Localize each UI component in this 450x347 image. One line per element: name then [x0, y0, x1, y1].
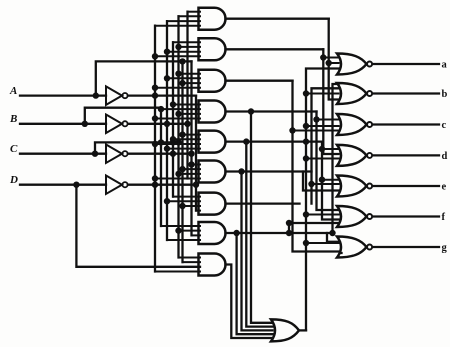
AND gate G3	[199, 70, 226, 92]
wire v323 (G2)	[323, 49, 338, 154]
wire G4 input 3	[179, 113, 201, 115]
junction G3.2	[164, 75, 170, 81]
node C-v178	[175, 139, 181, 145]
junction G6.2	[179, 166, 185, 172]
node Dbar-v155	[152, 182, 158, 188]
junction G4.1	[170, 101, 176, 107]
junction G7.2	[164, 198, 170, 204]
wire c.1 stub	[317, 119, 339, 121]
wire G1 input 2	[179, 15, 201, 17]
wire G2 output	[226, 48, 324, 50]
wire G6 input 3	[179, 173, 201, 175]
input C label	[10, 143, 18, 155]
output label b	[442, 89, 448, 100]
input D label	[9, 174, 18, 186]
wire G7 input 3	[183, 205, 201, 207]
node G8 up	[329, 230, 335, 236]
wire G2 input 4	[155, 55, 200, 57]
wire v328 (G1)	[329, 19, 339, 100]
output label d	[442, 151, 448, 162]
junction G7.3	[179, 203, 185, 209]
wire G5 input 1	[183, 134, 201, 136]
wire OR output	[299, 329, 306, 331]
wire output c	[373, 123, 439, 125]
wire bus v178	[177, 16, 179, 257]
AND gate G4	[199, 101, 226, 123]
node a.2	[326, 60, 332, 66]
node f.2	[303, 211, 309, 217]
wire a.2 stub	[329, 62, 339, 64]
input C wire	[20, 153, 106, 155]
node Bbar-v187	[184, 121, 190, 127]
wire G5 output	[226, 140, 323, 142]
svg-text:C: C	[10, 143, 18, 155]
wire bus v183	[181, 61, 183, 262]
node G8-or	[233, 230, 239, 236]
wire bus v191	[190, 61, 192, 235]
wire v303 (G6)	[303, 172, 339, 191]
wire G4 input 1	[173, 104, 200, 106]
wire G2 input 2	[179, 46, 201, 48]
wire f.2 stub	[306, 214, 339, 216]
wire c.2 stub	[306, 125, 339, 127]
wire G6 input 4	[155, 178, 200, 180]
wire e.2 stub	[312, 183, 339, 185]
junction G5.3	[152, 141, 158, 147]
junction G5.1	[179, 131, 185, 137]
output label c	[442, 120, 447, 131]
input A wire	[20, 94, 106, 96]
wire bus v161	[160, 108, 162, 226]
junction G6.4	[152, 175, 158, 181]
wire output d	[373, 154, 439, 156]
wire drop G6-OR	[242, 172, 273, 331]
node e.2	[308, 181, 314, 187]
wire B true	[85, 108, 161, 124]
wire drop G4-OR	[251, 112, 273, 323]
inverter U1 (A)	[106, 86, 128, 105]
svg-text:b: b	[442, 89, 448, 100]
wire Abar	[128, 94, 196, 96]
NOR gate f	[337, 206, 372, 227]
inverter U4 (D)	[106, 175, 128, 194]
wire G7 output	[226, 202, 300, 204]
wire G6 input 1	[192, 164, 201, 166]
junction G5.4	[164, 145, 170, 151]
wire G7 input 4	[196, 210, 200, 212]
svg-text:d: d	[442, 151, 448, 162]
output label e	[442, 182, 447, 193]
OR gate	[271, 319, 299, 341]
node Cbar-v173	[170, 151, 176, 157]
wire G8 input 4	[167, 239, 200, 241]
node A-v183	[179, 58, 185, 64]
NOR gate b	[337, 83, 372, 104]
node d.1	[319, 146, 325, 152]
wire v332 (G8 up)	[333, 84, 339, 233]
wire bus v167	[166, 21, 168, 240]
junction G3.1	[175, 71, 181, 77]
wire bus v155	[154, 26, 156, 272]
wire Cbar	[128, 153, 192, 155]
wire G6 input 2	[183, 168, 201, 170]
wire output e	[373, 185, 439, 187]
wire G3 input 3	[183, 82, 201, 84]
wire G3 output	[226, 80, 293, 82]
node a.1	[320, 54, 326, 60]
svg-text:a: a	[442, 60, 448, 71]
junction G4.2	[158, 106, 164, 112]
wire output a	[373, 63, 439, 65]
svg-text:g: g	[442, 243, 448, 254]
input A tee dot	[93, 92, 99, 98]
node G5-or	[243, 138, 249, 144]
AND gate G2	[199, 38, 226, 60]
NOR gate a	[337, 54, 372, 75]
wire a.1 stub	[323, 57, 338, 59]
wire G4 input 4	[155, 118, 200, 120]
wire G7 input 2	[167, 200, 200, 202]
wire v292 (G3)	[293, 81, 342, 253]
wire G1 input 1	[188, 11, 201, 13]
wire G1 output	[226, 18, 329, 20]
NOR gate e	[337, 176, 372, 197]
junction G3.3	[179, 80, 185, 86]
junction G2.4	[152, 53, 158, 59]
wire G2 input 3	[167, 51, 200, 53]
wire G2 input 1	[173, 41, 200, 43]
wire G5 input 3	[155, 143, 200, 145]
node g.2	[303, 240, 309, 246]
wire G8 input 1	[161, 225, 200, 227]
wire drop G5-OR	[246, 142, 272, 327]
wire g.2 stub	[306, 242, 339, 244]
wire G3 input 2	[167, 77, 200, 79]
junction G2.3	[164, 49, 170, 55]
svg-text:c: c	[442, 120, 447, 131]
node c.3	[289, 127, 295, 133]
node b.2	[303, 90, 309, 96]
wire bus v188	[186, 12, 188, 179]
node C-v161	[158, 139, 164, 145]
wire v322 (G5)	[322, 142, 339, 220]
node c.2	[303, 123, 309, 129]
NOR gate g	[337, 237, 372, 258]
node Cbar-v191	[188, 151, 194, 157]
wire G6 output	[226, 170, 312, 172]
wire G7 input 1	[173, 196, 200, 198]
node Dbar-v196	[193, 182, 199, 188]
wire G1 input 3	[167, 20, 200, 22]
node C-v173	[170, 139, 176, 145]
wire bus v196	[195, 96, 197, 211]
output label a	[442, 60, 448, 71]
junction G6.3	[175, 171, 181, 177]
wire drop G8-OR	[237, 233, 273, 334]
AND gate G6	[199, 161, 226, 183]
wire G1 input 4	[155, 25, 200, 27]
wire v311 (G7)	[312, 88, 339, 203]
wire G5 input 4	[167, 148, 200, 150]
wire bus v173	[172, 42, 174, 196]
AND gate G5	[199, 131, 226, 153]
wire vOR	[306, 69, 339, 331]
wire G9 input 1	[179, 257, 201, 259]
wire v327 (G8-g)	[327, 233, 339, 242]
junction G8.2	[175, 227, 181, 233]
junction G6.1	[188, 161, 194, 167]
NOR gate d	[337, 145, 372, 166]
inverter U2 (B)	[106, 115, 128, 134]
junction G4.3	[175, 111, 181, 117]
input B label	[9, 113, 17, 125]
junction G3.4	[152, 85, 158, 91]
input B tee dot	[82, 121, 88, 127]
input D wire	[20, 184, 106, 186]
junction G4.4	[152, 115, 158, 121]
junction G2.2	[175, 44, 181, 50]
wire b.2 stub	[306, 93, 339, 95]
node v289 a	[286, 230, 292, 236]
node v289 b	[286, 220, 292, 226]
wire A true	[96, 61, 192, 95]
wire G9 input 4	[155, 271, 200, 273]
node OR-G5 cross	[303, 138, 309, 144]
wire G3 input 4	[155, 87, 200, 89]
NOR gate c	[337, 114, 372, 135]
wire G5 input 2	[173, 138, 200, 140]
input B wire	[20, 123, 106, 125]
svg-text:f: f	[442, 212, 446, 223]
input C tee dot	[92, 151, 98, 157]
wire G8 input 2	[179, 230, 201, 232]
wire G9 input 2	[183, 261, 201, 263]
svg-text:A: A	[9, 85, 17, 97]
wire d.3 stub	[306, 158, 339, 160]
AND gate G9	[199, 254, 226, 276]
wire v289 (G8-f)	[289, 223, 339, 233]
wire Bbar	[128, 123, 188, 125]
svg-text:e: e	[442, 182, 447, 193]
svg-text:B: B	[9, 113, 17, 125]
svg-text:D: D	[9, 174, 18, 186]
wire G8 input 3	[192, 234, 201, 236]
wire G4 input 2	[161, 108, 200, 110]
wire d.1 stub	[322, 148, 339, 150]
inverter U3 (C)	[106, 144, 128, 163]
node Bbar-v167	[164, 121, 170, 127]
node e.1	[319, 177, 325, 183]
AND gate G7	[199, 193, 226, 215]
input D tee dot	[73, 182, 79, 188]
wire output g	[373, 246, 439, 248]
node G6-or	[238, 168, 244, 174]
wire v316 (G4)	[317, 112, 339, 211]
AND gate G8	[199, 222, 226, 244]
wire Dbar	[128, 184, 196, 186]
node d.3	[303, 155, 309, 161]
output label f	[442, 212, 446, 223]
input A label	[9, 85, 17, 97]
AND gate G1	[199, 8, 226, 30]
wire output f	[373, 215, 439, 217]
wire G8 output	[226, 232, 333, 234]
wire D true	[76, 185, 200, 267]
wire C true	[95, 142, 179, 153]
junction G5.2	[170, 136, 176, 142]
wire G9 output	[226, 265, 273, 339]
wire c.3 stub	[293, 130, 339, 132]
node G4-or	[248, 108, 254, 114]
output label g	[442, 243, 448, 254]
wire G4 output	[226, 110, 317, 112]
node c.1	[313, 116, 319, 122]
wire e.1 stub	[322, 179, 339, 181]
wire G3 input 1	[179, 73, 201, 75]
wire output b	[373, 92, 439, 94]
node Abar-v155	[152, 92, 158, 98]
